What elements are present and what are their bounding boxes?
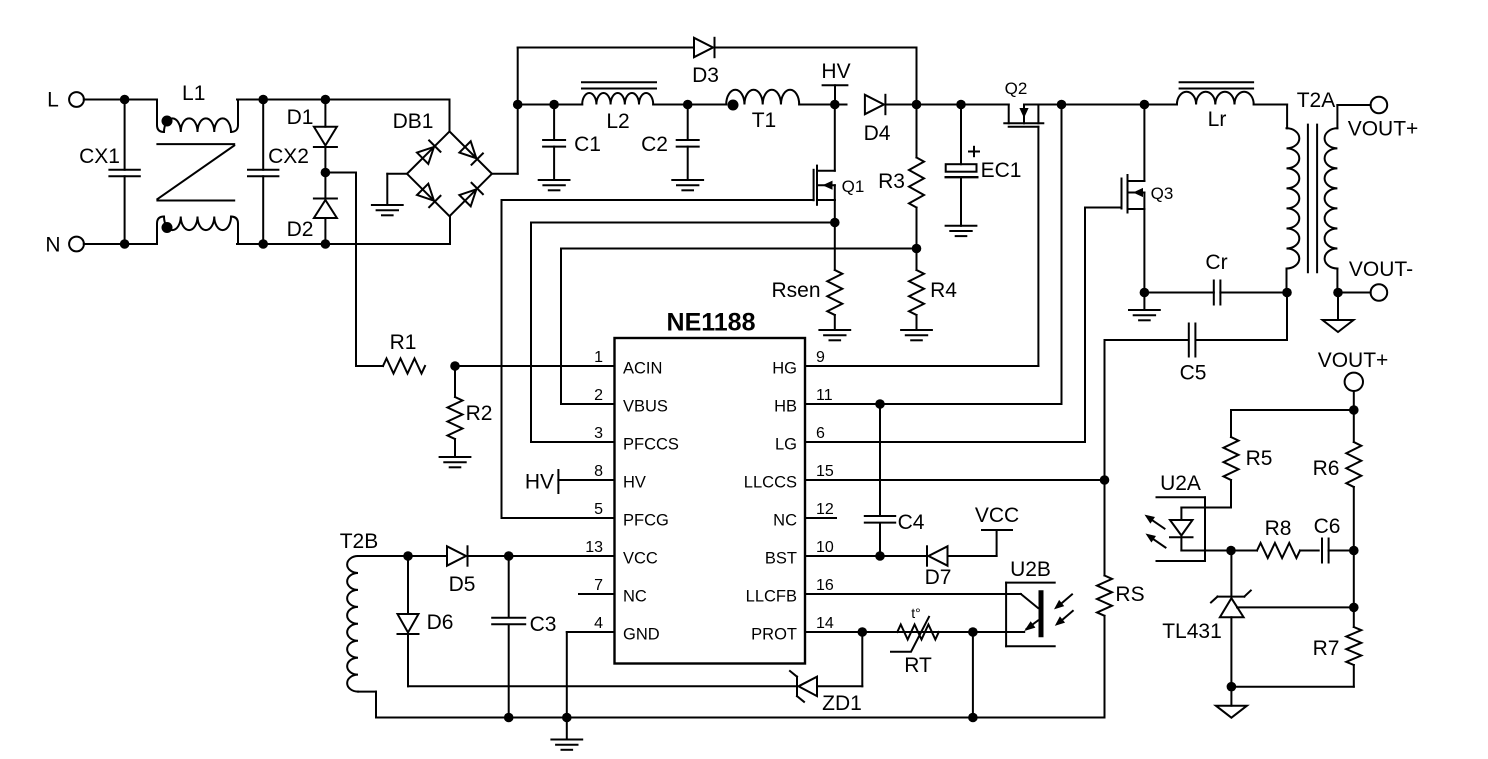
svg-text:D4: D4 xyxy=(864,122,891,145)
svg-text:VBUS: VBUS xyxy=(623,398,668,416)
svg-text:L1: L1 xyxy=(182,82,205,105)
svg-text:VCC: VCC xyxy=(623,550,658,568)
svg-text:CX2: CX2 xyxy=(268,145,309,168)
svg-text:VOUT+: VOUT+ xyxy=(1318,349,1389,372)
svg-text:Lr: Lr xyxy=(1208,108,1227,131)
svg-text:N: N xyxy=(45,234,60,257)
svg-text:11: 11 xyxy=(816,387,833,404)
svg-text:C6: C6 xyxy=(1314,515,1341,538)
svg-text:D6: D6 xyxy=(427,611,454,634)
svg-text:D3: D3 xyxy=(692,64,719,87)
svg-text:4: 4 xyxy=(594,615,603,632)
svg-text:R1: R1 xyxy=(390,331,417,354)
svg-text:5: 5 xyxy=(594,501,603,518)
svg-text:R8: R8 xyxy=(1265,517,1292,540)
svg-text:R2: R2 xyxy=(466,402,493,425)
svg-text:L2: L2 xyxy=(606,110,629,133)
svg-text:HG: HG xyxy=(772,360,797,378)
svg-text:R5: R5 xyxy=(1246,447,1273,470)
svg-text:Q3: Q3 xyxy=(1151,184,1174,203)
svg-text:2: 2 xyxy=(594,387,603,404)
svg-text:T2B: T2B xyxy=(340,530,379,553)
svg-text:R3: R3 xyxy=(878,170,905,193)
svg-text:D1: D1 xyxy=(287,106,314,129)
svg-text:9: 9 xyxy=(816,349,825,366)
svg-text:10: 10 xyxy=(816,539,834,556)
svg-text:3: 3 xyxy=(594,425,603,442)
svg-text:RS: RS xyxy=(1115,583,1144,606)
svg-text:Q1: Q1 xyxy=(842,177,865,196)
svg-text:ZD1: ZD1 xyxy=(822,692,862,715)
svg-text:EC1: EC1 xyxy=(981,159,1022,182)
svg-text:16: 16 xyxy=(816,577,834,594)
svg-text:LG: LG xyxy=(775,436,797,454)
svg-text:ACIN: ACIN xyxy=(623,360,662,378)
svg-text:HB: HB xyxy=(774,398,797,416)
svg-text:D7: D7 xyxy=(925,566,952,589)
svg-text:15: 15 xyxy=(816,463,834,480)
svg-text:RT: RT xyxy=(904,654,932,677)
svg-text:L: L xyxy=(47,89,59,112)
svg-text:D2: D2 xyxy=(287,218,314,241)
svg-text:PROT: PROT xyxy=(751,626,797,644)
svg-text:8: 8 xyxy=(594,463,603,480)
svg-text:NC: NC xyxy=(773,512,797,530)
svg-text:HV: HV xyxy=(623,474,646,492)
svg-text:GND: GND xyxy=(623,626,660,644)
svg-text:Q2: Q2 xyxy=(1005,79,1028,98)
svg-text:6: 6 xyxy=(816,425,825,442)
svg-text:t°: t° xyxy=(911,605,921,621)
svg-text:R7: R7 xyxy=(1313,637,1340,660)
svg-text:U2B: U2B xyxy=(1010,558,1051,581)
svg-text:T2A: T2A xyxy=(1297,89,1336,112)
svg-text:VCC: VCC xyxy=(975,504,1019,527)
svg-text:13: 13 xyxy=(585,539,603,556)
svg-text:DB1: DB1 xyxy=(393,110,434,133)
svg-text:BST: BST xyxy=(765,550,797,568)
svg-text:D5: D5 xyxy=(449,573,476,596)
svg-text:12: 12 xyxy=(816,501,834,518)
svg-text:VOUT+: VOUT+ xyxy=(1348,118,1419,141)
svg-text:LLCFB: LLCFB xyxy=(746,588,797,606)
svg-text:C1: C1 xyxy=(574,133,601,156)
svg-text:R4: R4 xyxy=(930,279,957,302)
svg-text:7: 7 xyxy=(594,577,603,594)
svg-text:VOUT-: VOUT- xyxy=(1349,258,1413,281)
svg-text:T1: T1 xyxy=(752,109,777,132)
svg-text:PFCCS: PFCCS xyxy=(623,436,679,454)
svg-text:R6: R6 xyxy=(1313,457,1340,480)
svg-text:HV: HV xyxy=(821,60,850,83)
svg-text:PFCG: PFCG xyxy=(623,512,669,530)
svg-text:14: 14 xyxy=(816,615,834,632)
svg-text:C3: C3 xyxy=(530,613,557,636)
svg-text:C2: C2 xyxy=(641,133,668,156)
svg-text:TL431: TL431 xyxy=(1162,620,1222,643)
svg-text:NC: NC xyxy=(623,588,647,606)
svg-text:C5: C5 xyxy=(1180,362,1207,385)
svg-text:CX1: CX1 xyxy=(79,145,120,168)
svg-text:HV: HV xyxy=(525,471,554,494)
svg-text:Cr: Cr xyxy=(1205,251,1227,274)
svg-text:C4: C4 xyxy=(898,511,925,534)
svg-text:Rsen: Rsen xyxy=(771,279,820,302)
svg-text:NE1188: NE1188 xyxy=(667,309,756,337)
svg-text:1: 1 xyxy=(594,349,603,366)
svg-text:LLCCS: LLCCS xyxy=(744,474,797,492)
svg-text:U2A: U2A xyxy=(1160,472,1201,495)
